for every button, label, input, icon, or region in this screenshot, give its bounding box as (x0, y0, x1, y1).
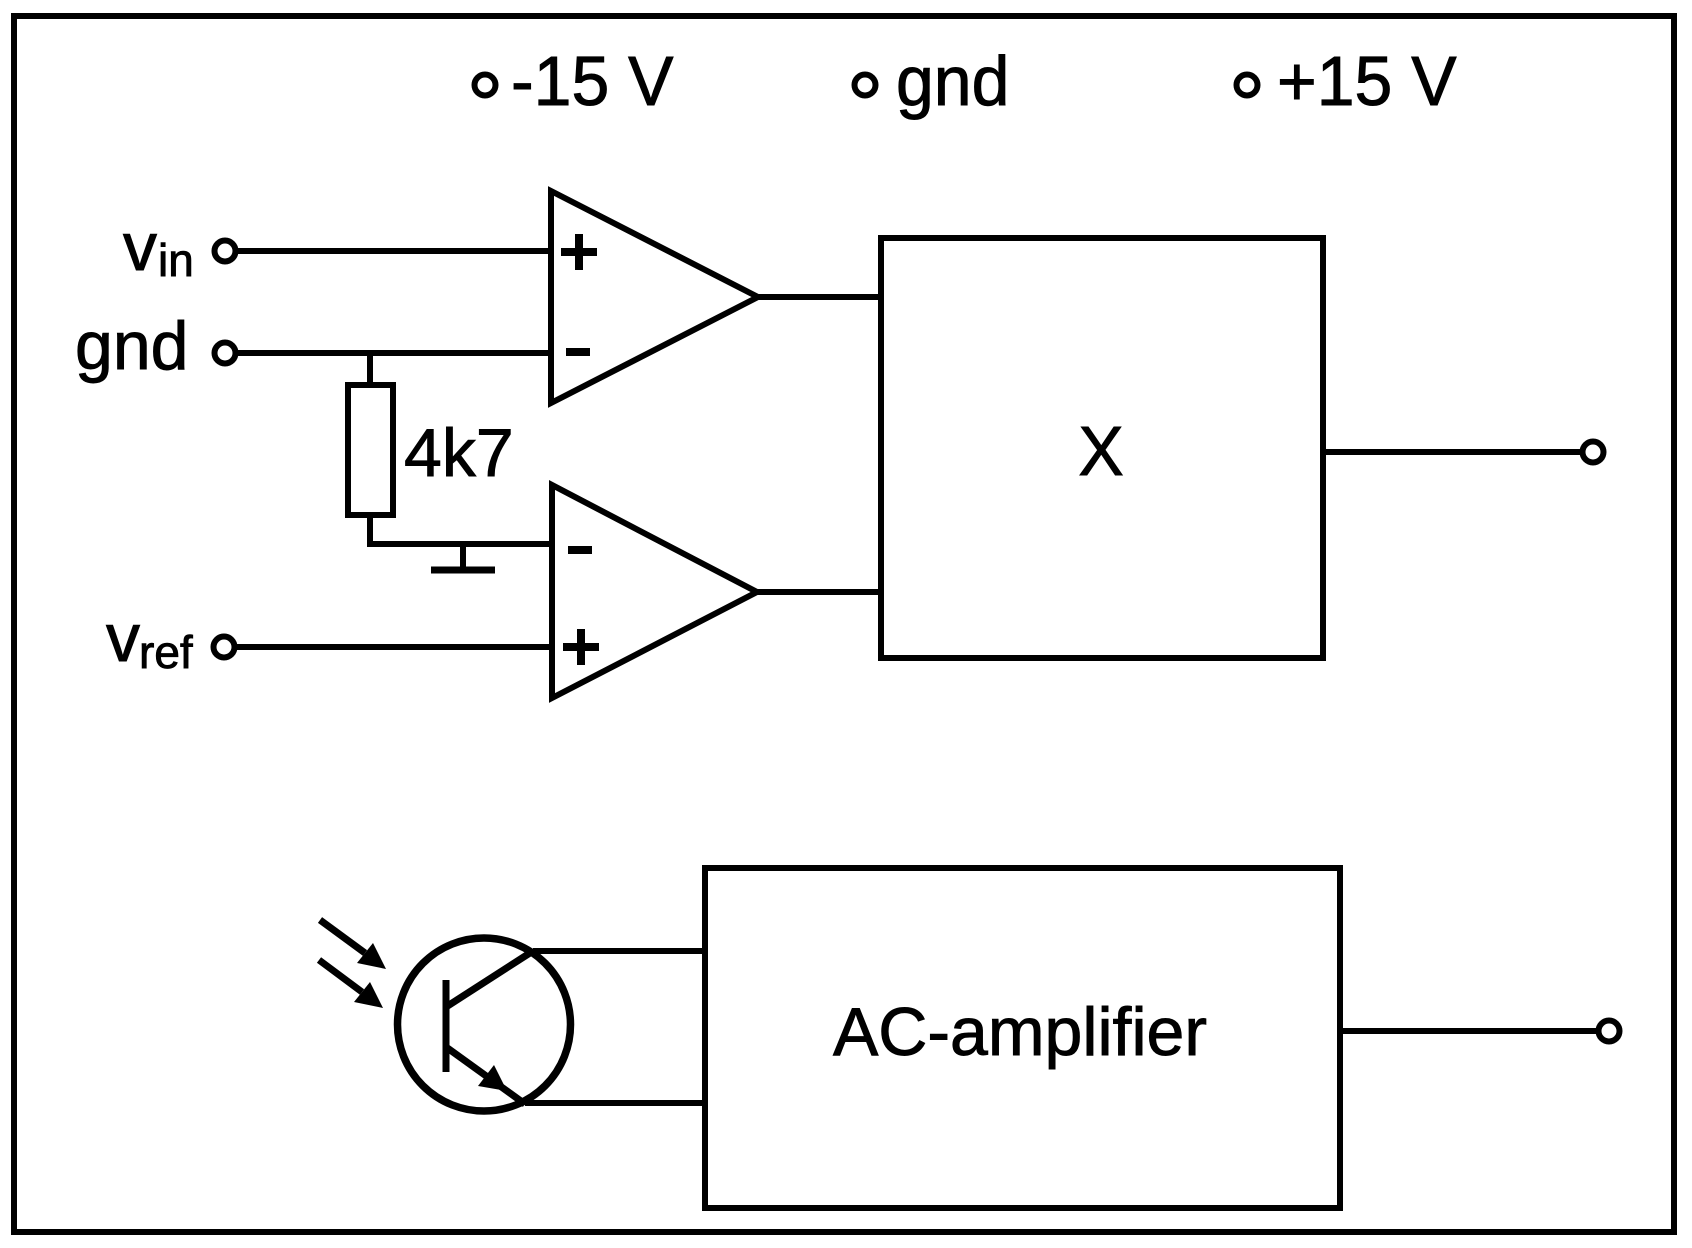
U2 minus sign (568, 546, 592, 554)
wire Q1 collector to AC-amplifier (533, 948, 705, 954)
wire resistor to op-amp U2 - (367, 541, 552, 547)
svg-text:gnd: gnd (896, 42, 1009, 120)
ground bar (431, 567, 495, 574)
svg-text:4k7: 4k7 (404, 415, 514, 491)
phototransistor Q1 body (398, 938, 571, 1111)
U1 minus sign (566, 348, 590, 356)
wire U2 output to multiplier (757, 589, 881, 595)
resistor R1 body (348, 385, 393, 515)
svg-text:v: v (106, 600, 140, 676)
wire AC-amplifier to output terminal (1340, 1028, 1596, 1034)
output terminal (multiplier) (1583, 442, 1604, 463)
terminal vin (215, 241, 236, 262)
Q1 emitter (446, 1047, 525, 1104)
terminal gnd (left) (215, 343, 236, 364)
svg-text:+15 V: +15 V (1277, 42, 1457, 120)
op-amp U2 (552, 485, 757, 698)
wire resistor bottom stub (367, 515, 373, 547)
wire U1 output to multiplier (758, 294, 881, 300)
Q1 emitter arrowhead (478, 1065, 507, 1091)
svg-text:gnd: gnd (75, 308, 188, 384)
U2 plus sign (563, 629, 599, 665)
terminal +15V (1237, 75, 1258, 96)
wire vin to op-amp U1 + (238, 248, 551, 254)
wire vref to op-amp U2 + (237, 644, 552, 650)
terminal -15V (475, 75, 496, 96)
terminal vref (214, 637, 235, 658)
terminal gnd (top) (855, 75, 876, 96)
svg-text:v: v (123, 209, 157, 285)
svg-text:AC-amplifier: AC-amplifier (833, 994, 1207, 1070)
svg-text:X: X (1078, 412, 1123, 490)
svg-text:-15 V: -15 V (511, 42, 674, 120)
wire stub gnd wire to resistor R1 (367, 353, 373, 385)
U1 plus sign (561, 234, 597, 270)
wire gnd to op-amp U1 - (238, 350, 551, 356)
wire Q1 emitter to AC-amplifier (525, 1100, 705, 1106)
output terminal (AC-amplifier) (1599, 1021, 1620, 1042)
wire multiplier to output terminal (1323, 449, 1581, 455)
ground stub (460, 544, 466, 569)
Q1 collector (446, 951, 533, 1007)
Q1 base bar (443, 980, 450, 1072)
light arrow 1 (320, 920, 365, 953)
multiplier block X (881, 238, 1323, 658)
light arrow 2 (319, 960, 362, 992)
op-amp U1 (551, 191, 758, 403)
AC-amplifier block (705, 868, 1340, 1208)
